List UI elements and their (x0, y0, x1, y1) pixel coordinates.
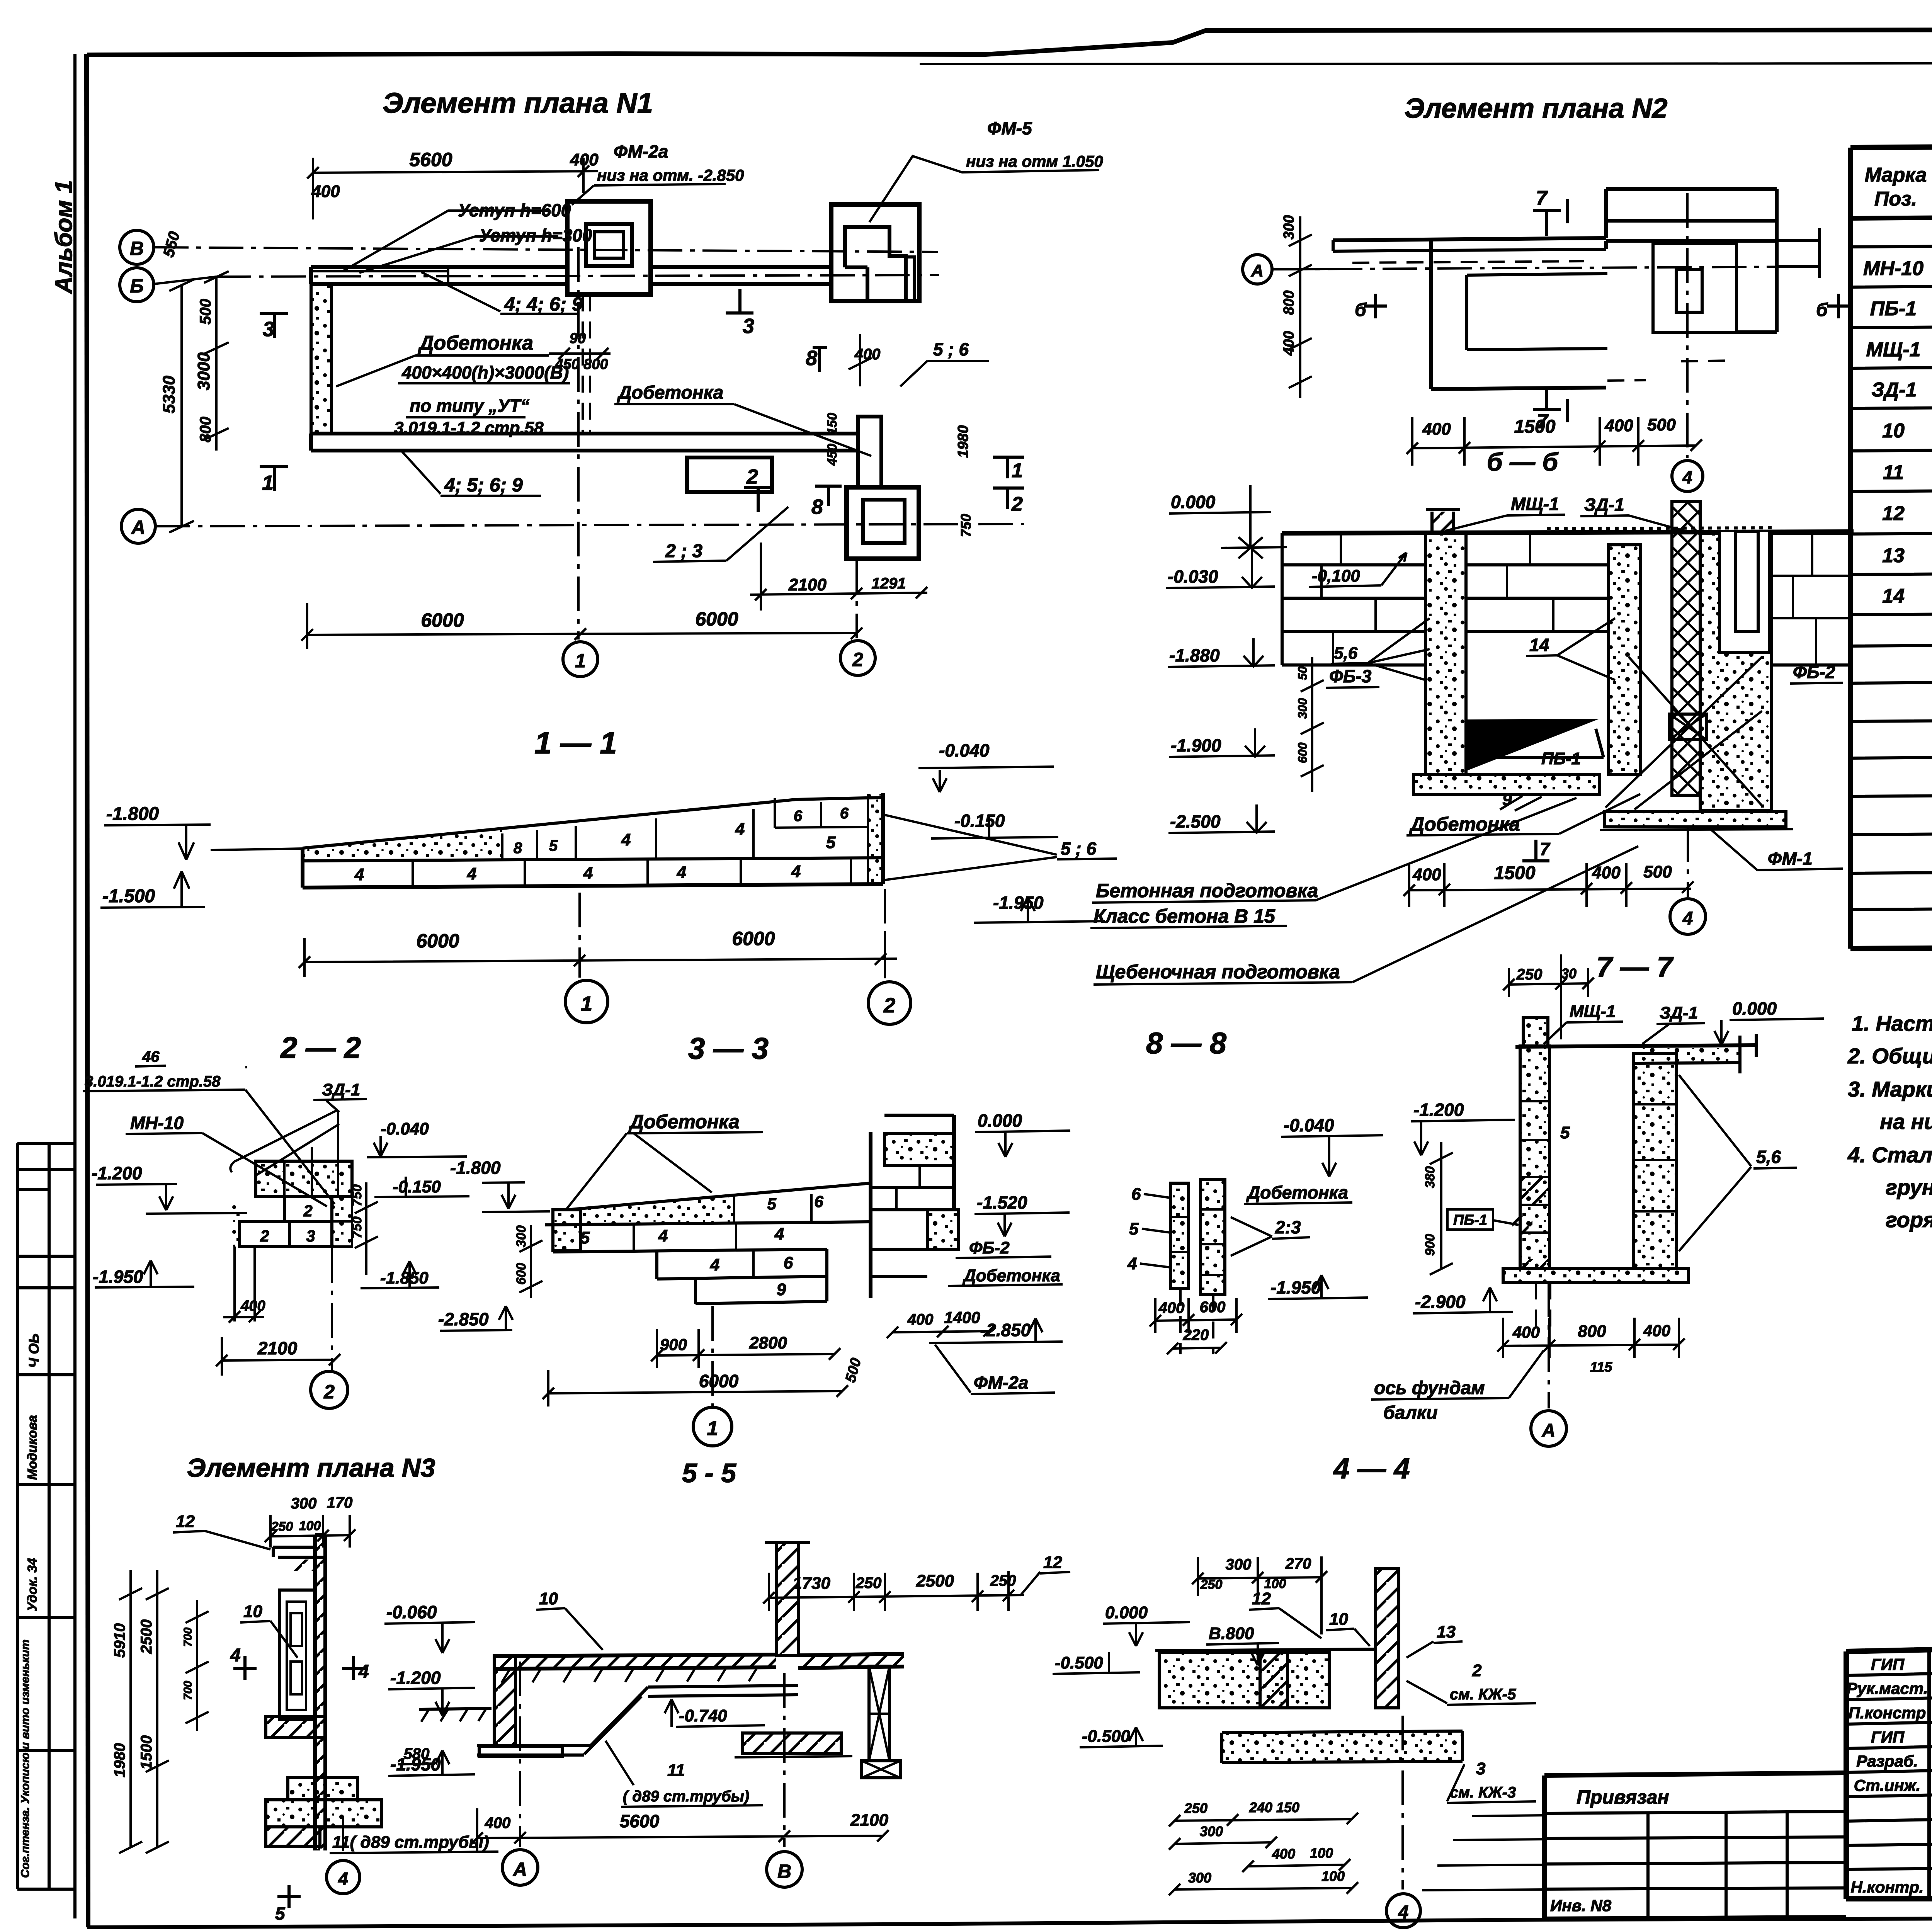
svg-text:А: А (512, 1859, 527, 1880)
leader 4;5;6;9 (402, 451, 541, 496)
left stack (1170, 1183, 1189, 1289)
svg-text:1. Настоящий чертеж см. с: 1. Настоящий чертеж см. с листом КЖ-2. (1852, 1011, 1932, 1036)
svg-text:1500: 1500 (138, 1735, 155, 1770)
svg-text:3: 3 (1476, 1759, 1485, 1778)
frame bottom border (87, 1918, 1932, 1927)
privyazan outer box (1544, 1773, 1846, 1919)
section mark 2 (744, 488, 772, 512)
bottom dim chain (1406, 417, 1702, 466)
svg-text:Добетонка: Добетонка (1246, 1182, 1348, 1202)
svg-text:2. Общие примечания см. ли: 2. Общие примечания см. лист КЖ-3. (1847, 1044, 1932, 1068)
left dim chain (1273, 216, 1329, 398)
svg-text:400: 400 (570, 150, 599, 169)
svg-text:46: 46 (142, 1048, 160, 1065)
hatched column (1376, 1569, 1399, 1708)
axis circle В (120, 230, 154, 264)
svg-text:270: 270 (1285, 1555, 1311, 1572)
grid line 1 (577, 247, 580, 639)
right stack (1201, 1179, 1225, 1294)
svg-text:4: 4 (467, 864, 476, 883)
top bracket (273, 1547, 325, 1557)
svg-text:Бетонная подготовка: Бетонная подготовка (1096, 880, 1318, 901)
svg-text:4: 4 (710, 1255, 719, 1274)
svg-text:1500: 1500 (1514, 417, 1556, 437)
svg-text:см. КЖ-5: см. КЖ-5 (1450, 1686, 1516, 1703)
svg-text:5: 5 (549, 837, 558, 854)
svg-text:ФБ-2: ФБ-2 (1793, 662, 1835, 682)
svg-text:4: 4 (658, 1226, 668, 1245)
svg-text:0.000: 0.000 (1732, 998, 1777, 1019)
dashes (1607, 361, 1735, 381)
svg-text:1500: 1500 (1494, 863, 1536, 883)
base slab right (743, 1733, 841, 1753)
svg-text:400: 400 (1512, 1323, 1540, 1341)
right mass diagonals (1605, 657, 1762, 810)
pier at grid 2 (858, 417, 881, 487)
svg-text:-1.200: -1.200 (92, 1163, 142, 1183)
lintel ПБ-1 (1466, 729, 1604, 757)
svg-text:250: 250 (1516, 966, 1543, 983)
ramp top slant (303, 798, 883, 848)
svg-text:Сог.птенза. Укописю и вито изм: Сог.птенза. Укописю и вито изменькит (19, 1639, 32, 1878)
svg-text:4: 4 (1682, 908, 1693, 929)
section mark 7 in dim (1522, 840, 1549, 861)
grid bubble 1 (693, 1407, 732, 1446)
section mark 8 top (813, 348, 827, 372)
svg-text:220: 220 (1183, 1327, 1209, 1344)
svg-text:0.000: 0.000 (1105, 1603, 1148, 1622)
svg-text:4: 4 (677, 863, 686, 882)
foundation block ФМ-7 (847, 487, 919, 559)
svg-text:ФБ-3: ФБ-3 (1329, 666, 1372, 686)
svg-text:5,6: 5,6 (1756, 1147, 1781, 1167)
svg-text:( д89 ст.трубы): ( д89 ст.трубы) (623, 1788, 749, 1805)
dotted plate strip (1547, 528, 1774, 529)
svg-text:В.800: В.800 (1209, 1624, 1254, 1643)
svg-text:Добетонка: Добетонка (962, 1266, 1060, 1285)
black wedge (1466, 719, 1600, 771)
section mark 1 left (260, 467, 288, 491)
svg-text:В: В (777, 1861, 791, 1882)
fence post (776, 1543, 798, 1655)
svg-text:170: 170 (327, 1494, 353, 1511)
svg-text:1: 1 (575, 650, 586, 672)
svg-text:5 ; 6: 5 ; 6 (933, 339, 969, 359)
svg-text:на них см. спецификацию на: на них см. спецификацию на листе КЖ-2. (1880, 1109, 1932, 1134)
svg-text:2:3: 2:3 (1275, 1217, 1301, 1237)
svg-text:Добетонка: Добетонка (628, 1111, 740, 1133)
leader 4;4;6;9 (421, 272, 580, 314)
svg-text:250: 250 (1184, 1800, 1207, 1816)
svg-text:ФМ-2а: ФМ-2а (974, 1372, 1028, 1393)
bottom dim 2100 (216, 1337, 340, 1376)
svg-text:4; 4; 6; 9: 4; 4; 6; 9 (504, 293, 583, 315)
privyazan rows (1544, 1811, 1846, 1889)
svg-text:11( д89 ст.трубы): 11( д89 ст.трубы) (332, 1833, 489, 1852)
svg-text:400: 400 (907, 1311, 934, 1328)
svg-text:550: 550 (160, 230, 183, 259)
spec table row lines (1850, 241, 1932, 910)
svg-text:380: 380 (1423, 1166, 1437, 1188)
section mark 7 bottom (1533, 386, 1567, 422)
svg-text:4: 4 (621, 830, 631, 849)
svg-text:МЩ-1: МЩ-1 (1866, 338, 1921, 361)
right end speckled strip (868, 794, 883, 884)
dashed below footing (1536, 1282, 1550, 1329)
svg-text:ПБ-1: ПБ-1 (1870, 298, 1917, 320)
svg-text:1: 1 (707, 1417, 718, 1440)
spec table outer box (1850, 142, 1932, 949)
base mass (1159, 1652, 1329, 1708)
svg-text:5910: 5910 (111, 1623, 128, 1658)
svg-text:14: 14 (1529, 635, 1549, 655)
small dim 400 (223, 1247, 264, 1323)
title block signature column lines (1929, 1645, 1932, 1899)
foundation block ФМ-2а (567, 201, 651, 294)
grid line 2 (855, 559, 858, 638)
section mark 7 top (1533, 199, 1567, 236)
svg-text:450 800: 450 800 (554, 356, 608, 372)
svg-text:400: 400 (1604, 416, 1633, 435)
svg-text:Ч ОЬ: Ч ОЬ (26, 1333, 42, 1368)
right mass U-slot (1719, 532, 1770, 652)
svg-text:А: А (1542, 1420, 1556, 1441)
svg-text:ось фундам: ось фундам (1374, 1378, 1485, 1398)
svg-text:2: 2 (883, 994, 895, 1017)
bench block left of pier (687, 457, 772, 492)
svg-text:13: 13 (1882, 544, 1905, 567)
svg-text:10: 10 (1882, 420, 1905, 442)
svg-text:-1.500: -1.500 (102, 886, 155, 906)
left pier (1425, 533, 1466, 774)
lower ground line (419, 1708, 492, 1709)
bottom dim chain (1403, 863, 1694, 907)
ramp outline (303, 793, 883, 888)
svg-text:6000: 6000 (416, 930, 459, 952)
svg-text:4: 4 (354, 865, 364, 884)
left wall courses (1282, 533, 1425, 665)
svg-text:-0.040: -0.040 (1284, 1115, 1334, 1135)
svg-text:4: 4 (358, 1662, 369, 1682)
svg-text:2: 2 (746, 465, 758, 488)
frame top border (87, 29, 1932, 55)
right mass (1700, 533, 1772, 811)
grid dash (1401, 1716, 1404, 1889)
X column base (862, 1761, 900, 1778)
svg-text:Б: Б (130, 275, 143, 297)
svg-text:7: 7 (1540, 839, 1551, 859)
svg-text:Рук.маст.: Рук.маст. (1847, 1679, 1928, 1697)
svg-text:5: 5 (1560, 1123, 1570, 1142)
grid dash (342, 1816, 344, 1859)
svg-text:115: 115 (1590, 1359, 1612, 1375)
grid bubble А (502, 1850, 538, 1885)
speckle wedge (303, 828, 502, 861)
svg-text:А: А (131, 517, 145, 538)
svg-text:400×400(h)×3000(В): 400×400(h)×3000(В) (401, 362, 569, 383)
svg-text:5600: 5600 (620, 1811, 660, 1831)
footing left (1413, 774, 1600, 794)
svg-text:3.019.1-1.2 стр.58: 3.019.1-1.2 стр.58 (394, 418, 544, 437)
svg-text:ЗД-1: ЗД-1 (1660, 1003, 1698, 1022)
label ПБ-1 boxed (1447, 1209, 1493, 1230)
ground slab right part (798, 1655, 904, 1667)
U-block wall (1431, 189, 1606, 389)
svg-text:1400: 1400 (944, 1308, 980, 1327)
axis circle Б (120, 268, 154, 302)
svg-text:6000: 6000 (421, 609, 464, 631)
section mark 3 left (260, 314, 288, 338)
svg-text:0.000: 0.000 (978, 1111, 1022, 1131)
svg-text:-1.200: -1.200 (1413, 1100, 1464, 1120)
svg-text:-0.030: -0.030 (1168, 566, 1218, 587)
section mark б right (1827, 294, 1850, 318)
svg-text:1980: 1980 (955, 425, 971, 458)
foundation block ФМ-5 (831, 204, 919, 301)
dim 5600 top (307, 158, 598, 219)
section marks 1 2 right (993, 457, 1024, 509)
svg-text:2100: 2100 (850, 1811, 888, 1830)
frame top border second scan line (920, 63, 1932, 64)
svg-text:30: 30 (1561, 966, 1577, 981)
svg-text:Добетонка: Добетонка (418, 332, 533, 354)
svg-text:250: 250 (855, 1575, 882, 1592)
svg-text:9: 9 (777, 1280, 786, 1299)
footing right (1604, 811, 1786, 827)
svg-text:2: 2 (260, 1227, 269, 1245)
bottom dim 6000+6000 (301, 603, 862, 649)
wall band (1333, 238, 1606, 240)
svg-text:400: 400 (240, 1298, 265, 1314)
svg-text:-0,100: -0,100 (1312, 566, 1360, 585)
footing slab (1503, 1269, 1689, 1282)
grid bubble 4 (1386, 1894, 1420, 1928)
svg-text:Ст.инж.: Ст.инж. (1854, 1776, 1920, 1794)
svg-text:-0.150: -0.150 (393, 1177, 441, 1196)
svg-text:3 — 3: 3 — 3 (688, 1031, 769, 1065)
axis line Б elbow (154, 277, 216, 284)
svg-text:8: 8 (806, 347, 817, 370)
svg-text:5: 5 (767, 1195, 776, 1213)
ramp course line (303, 858, 883, 861)
right stub band (1777, 228, 1820, 278)
grid bubble 2 (840, 641, 875, 675)
section mark 3 right (726, 289, 753, 313)
axis line Б (216, 275, 939, 277)
svg-text:Уступ h=300: Уступ h=300 (479, 225, 592, 245)
svg-text:Класс бетона В 15: Класс бетона В 15 (1094, 905, 1276, 927)
svg-text:500: 500 (842, 1356, 864, 1384)
svg-text:250: 250 (990, 1572, 1016, 1589)
svg-text:П.констр: П.констр (1849, 1704, 1926, 1722)
svg-text:-0.060: -0.060 (386, 1602, 437, 1622)
svg-text:100: 100 (1310, 1845, 1333, 1861)
svg-text:балки: балки (1383, 1403, 1438, 1423)
svg-text:по типу „УТ“: по типу „УТ“ (410, 396, 529, 416)
svg-text:см. КЖ-3: см. КЖ-3 (1450, 1784, 1516, 1801)
svg-text:А: А (1251, 261, 1264, 280)
dim 900 2800 (651, 1329, 840, 1368)
svg-text:300: 300 (1281, 215, 1297, 240)
svg-text:1 — 1: 1 — 1 (534, 726, 617, 760)
svg-text:400: 400 (485, 1815, 511, 1832)
footing polygon (1222, 1731, 1463, 1763)
ground slab left part (494, 1655, 776, 1668)
svg-text:750: 750 (958, 514, 974, 537)
svg-text:2500: 2500 (138, 1619, 155, 1654)
rotated dims column (1301, 657, 1324, 792)
svg-text:-0.500: -0.500 (1082, 1727, 1130, 1746)
svg-text:5 - 5: 5 - 5 (682, 1458, 736, 1488)
grid dash (331, 1248, 333, 1370)
axis line А (1273, 267, 1816, 269)
grid 4 dash (1687, 827, 1689, 897)
leader to ramp top (211, 849, 303, 850)
left post above ground (1432, 512, 1454, 533)
axis line А (155, 524, 1024, 526)
top slab line (1515, 1045, 1756, 1047)
speckle top row (581, 1195, 734, 1223)
svg-text:400: 400 (311, 182, 340, 201)
left pit wall (494, 1655, 515, 1746)
svg-text:750: 750 (350, 1216, 364, 1238)
inner dim chain (185, 1600, 209, 1731)
svg-text:-0.150: -0.150 (954, 811, 1005, 831)
stamp strip box lines (17, 1143, 75, 1889)
svg-text:Уступ h=600: Уступ h=600 (458, 200, 571, 220)
section marks 4 (233, 1656, 257, 1680)
svg-text:горячим битумом в 2 слоя.: горячим битумом в 2 слоя. (1886, 1207, 1932, 1232)
svg-text:ФБ-2: ФБ-2 (969, 1238, 1010, 1257)
svg-text:4: 4 (735, 820, 745, 838)
svg-text:100: 100 (299, 1519, 321, 1533)
svg-text:2: 2 (852, 649, 863, 670)
bottom dim chain (1497, 1318, 1685, 1358)
svg-text:5,6: 5,6 (1334, 644, 1358, 663)
svg-text:-1.950: -1.950 (993, 893, 1044, 913)
right block column (1633, 1053, 1677, 1269)
svg-text:6: 6 (784, 1253, 793, 1272)
ramp left block (553, 1210, 581, 1251)
svg-text:2: 2 (1011, 493, 1023, 515)
grid bubble В (767, 1852, 802, 1887)
grid dash 1 (578, 893, 581, 978)
svg-text:4: 4 (1682, 467, 1692, 487)
grid dash А (519, 1662, 521, 1847)
svg-text:400: 400 (1412, 865, 1441, 884)
svg-text:150: 150 (825, 413, 840, 435)
grid bubble 2 (868, 982, 911, 1024)
section mark 8 bottom (815, 486, 842, 506)
main wall (315, 1535, 325, 1850)
svg-text:-0.040: -0.040 (939, 740, 990, 760)
svg-text:Элемент плана N1: Элемент плана N1 (383, 87, 653, 119)
svg-text:6000: 6000 (699, 1371, 739, 1391)
svg-text:6: 6 (814, 1192, 823, 1211)
stamp strip verticals (17, 54, 75, 1918)
course joints (634, 1194, 811, 1277)
svg-text:12: 12 (1043, 1553, 1062, 1572)
svg-text:Модикова: Модикова (25, 1415, 40, 1480)
center courses (1466, 565, 1609, 631)
leader уступ h=600 (344, 211, 549, 270)
svg-text:-1.900: -1.900 (1171, 735, 1221, 755)
svg-text:1: 1 (1012, 459, 1023, 482)
svg-text:Альбом 1: Альбом 1 (51, 180, 77, 294)
privyazan columns (1648, 1813, 1787, 1919)
svg-text:50: 50 (1296, 666, 1310, 680)
svg-text:2800: 2800 (749, 1333, 787, 1352)
svg-text:4: 4 (791, 862, 801, 881)
grid 4 dash line (1686, 193, 1689, 458)
svg-text:1: 1 (581, 992, 592, 1015)
mid slab (266, 1716, 325, 1737)
svg-text:6000: 6000 (732, 928, 775, 949)
center joints (1507, 533, 1553, 631)
dashed projection below ФМ-2а (583, 294, 590, 434)
grid bubble 4 (1670, 899, 1706, 934)
svg-text:600: 600 (1296, 742, 1310, 763)
svg-text:10: 10 (539, 1589, 558, 1608)
axis line В (154, 247, 938, 252)
svg-text:МН-10: МН-10 (130, 1113, 184, 1133)
right rotated dims (355, 1182, 378, 1275)
svg-text:400: 400 (1272, 1846, 1295, 1862)
left block column (1520, 1046, 1549, 1269)
svg-text:ГИП: ГИП (1871, 1655, 1905, 1673)
section mark б left (1364, 294, 1387, 318)
svg-text:900: 900 (1423, 1234, 1437, 1256)
grid bubble А (1531, 1411, 1566, 1446)
svg-text:400: 400 (1422, 420, 1451, 439)
svg-text:-1.950: -1.950 (390, 1754, 441, 1774)
svg-text:400: 400 (1592, 863, 1621, 882)
svg-text:6: 6 (1131, 1185, 1141, 1204)
left dim 5330 (169, 279, 194, 532)
section mark 5 (277, 1885, 301, 1908)
svg-text:ПБ-1: ПБ-1 (1453, 1212, 1487, 1228)
svg-text:5600: 5600 (409, 149, 452, 170)
svg-text:600: 600 (514, 1263, 529, 1285)
dim line 6000 6000 (299, 935, 897, 977)
svg-text:2: 2 (303, 1202, 312, 1220)
svg-text:Добетонка: Добетонка (617, 383, 723, 403)
svg-text:2100: 2100 (788, 575, 827, 594)
svg-text:-0.040: -0.040 (381, 1119, 429, 1138)
svg-text:Марка: Марка (1865, 164, 1927, 186)
grid bubble 4 (327, 1861, 360, 1894)
svg-text:-1.880: -1.880 (1169, 645, 1220, 665)
svg-text:Инв. N8: Инв. N8 (1550, 1896, 1612, 1915)
pipe (477, 1685, 798, 1755)
svg-text:10: 10 (243, 1602, 262, 1621)
dim 6000 (543, 1370, 848, 1406)
svg-text:6000: 6000 (695, 608, 738, 630)
svg-text:Н.контр.: Н.контр. (1851, 1878, 1924, 1896)
svg-text:400: 400 (1281, 331, 1297, 356)
svg-text:2 — 2: 2 — 2 (280, 1031, 361, 1065)
svg-text:500: 500 (197, 299, 214, 325)
svg-text:12: 12 (1882, 502, 1905, 525)
svg-text:4: 4 (583, 864, 593, 883)
svg-text:низ на отм 1.050: низ на отм 1.050 (966, 152, 1103, 170)
svg-text:-1.200: -1.200 (390, 1668, 441, 1688)
svg-text:13: 13 (1437, 1622, 1456, 1641)
svg-text:700: 700 (182, 1628, 194, 1647)
svg-text:Поз.: Поз. (1874, 188, 1917, 210)
svg-text:10: 10 (1329, 1610, 1348, 1629)
left column stub above (1523, 1018, 1548, 1046)
